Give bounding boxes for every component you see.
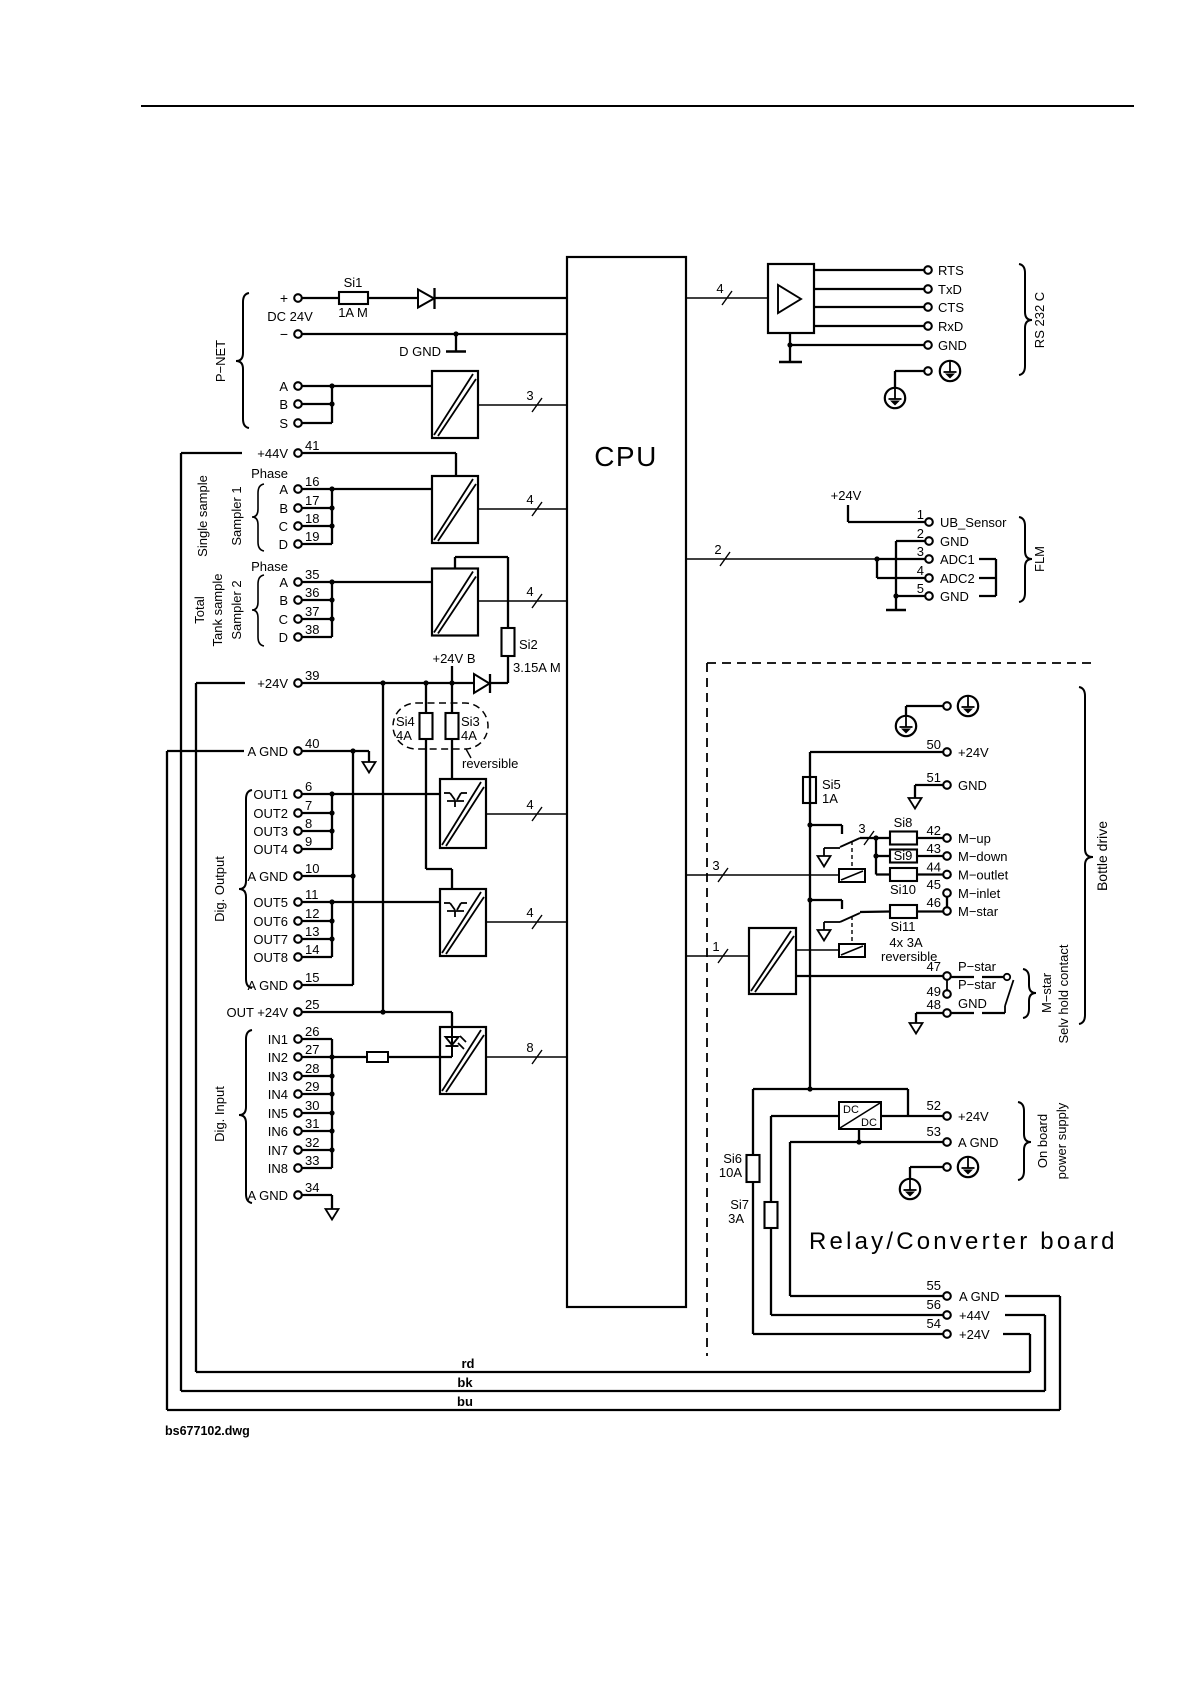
svg-text:+44V: +44V bbox=[959, 1308, 990, 1323]
svg-text:1A M: 1A M bbox=[338, 305, 368, 320]
svg-text:4: 4 bbox=[526, 492, 533, 507]
svg-text:RTS: RTS bbox=[938, 263, 964, 278]
svg-text:A GND: A GND bbox=[248, 978, 288, 993]
svg-text:GND: GND bbox=[958, 996, 987, 1011]
svg-text:DC 24V: DC 24V bbox=[267, 309, 313, 324]
svg-text:bs677102.dwg: bs677102.dwg bbox=[165, 1424, 250, 1438]
svg-text:+24V: +24V bbox=[958, 1109, 989, 1124]
svg-text:4: 4 bbox=[526, 797, 533, 812]
svg-text:14: 14 bbox=[305, 942, 319, 957]
svg-text:OUT1: OUT1 bbox=[253, 787, 288, 802]
svg-text:Si10: Si10 bbox=[890, 882, 916, 897]
svg-text:Si2: Si2 bbox=[519, 637, 538, 652]
svg-text:M−down: M−down bbox=[958, 849, 1008, 864]
svg-text:Sampler 2: Sampler 2 bbox=[229, 580, 244, 639]
svg-text:1: 1 bbox=[712, 939, 719, 954]
svg-text:D: D bbox=[279, 630, 288, 645]
svg-text:56: 56 bbox=[927, 1297, 941, 1312]
svg-text:50: 50 bbox=[927, 737, 941, 752]
svg-text:IN6: IN6 bbox=[268, 1124, 288, 1139]
svg-text:+24V: +24V bbox=[257, 676, 288, 691]
svg-text:9: 9 bbox=[305, 834, 312, 849]
svg-text:Si7: Si7 bbox=[730, 1197, 749, 1212]
svg-text:53: 53 bbox=[927, 1124, 941, 1139]
svg-text:19: 19 bbox=[305, 529, 319, 544]
svg-text:Sampler 1: Sampler 1 bbox=[229, 486, 244, 545]
svg-text:8: 8 bbox=[305, 816, 312, 831]
svg-text:A GND: A GND bbox=[958, 1135, 998, 1150]
svg-text:OUT2: OUT2 bbox=[253, 806, 288, 821]
svg-text:OUT8: OUT8 bbox=[253, 950, 288, 965]
svg-text:A: A bbox=[279, 575, 288, 590]
svg-text:RxD: RxD bbox=[938, 319, 963, 334]
svg-text:Si6: Si6 bbox=[723, 1151, 742, 1166]
svg-text:M−inlet: M−inlet bbox=[958, 886, 1001, 901]
svg-text:rd: rd bbox=[462, 1356, 475, 1371]
svg-text:30: 30 bbox=[305, 1098, 319, 1113]
svg-text:reversible: reversible bbox=[462, 756, 518, 771]
svg-text:D GND: D GND bbox=[399, 344, 441, 359]
svg-text:3: 3 bbox=[526, 388, 533, 403]
svg-text:4A: 4A bbox=[396, 728, 412, 743]
svg-text:Si4: Si4 bbox=[396, 714, 415, 729]
svg-text:P−star: P−star bbox=[958, 977, 997, 992]
svg-text:UB_Sensor: UB_Sensor bbox=[940, 515, 1007, 530]
svg-text:On board: On board bbox=[1035, 1114, 1050, 1168]
svg-text:1: 1 bbox=[917, 507, 924, 522]
svg-text:power supply: power supply bbox=[1054, 1102, 1069, 1179]
svg-text:4x 3A: 4x 3A bbox=[889, 935, 923, 950]
svg-text:IN7: IN7 bbox=[268, 1143, 288, 1158]
svg-text:GND: GND bbox=[958, 778, 987, 793]
svg-text:29: 29 bbox=[305, 1079, 319, 1094]
svg-text:IN8: IN8 bbox=[268, 1161, 288, 1176]
svg-text:5: 5 bbox=[917, 581, 924, 596]
svg-text:ADC1: ADC1 bbox=[940, 552, 975, 567]
svg-text:2: 2 bbox=[917, 526, 924, 541]
svg-text:6: 6 bbox=[305, 779, 312, 794]
svg-text:M−outlet: M−outlet bbox=[958, 868, 1009, 883]
svg-text:32: 32 bbox=[305, 1135, 319, 1150]
svg-text:16: 16 bbox=[305, 474, 319, 489]
svg-text:+24V: +24V bbox=[958, 745, 989, 760]
svg-text:Dig. Output: Dig. Output bbox=[212, 856, 227, 922]
svg-text:B: B bbox=[279, 593, 288, 608]
svg-text:−: − bbox=[280, 326, 288, 342]
svg-text:D: D bbox=[279, 537, 288, 552]
svg-text:B: B bbox=[279, 397, 288, 412]
svg-text:4: 4 bbox=[716, 281, 723, 296]
svg-text:3: 3 bbox=[917, 544, 924, 559]
svg-text:OUT7: OUT7 bbox=[253, 932, 288, 947]
svg-text:12: 12 bbox=[305, 906, 319, 921]
svg-text:S: S bbox=[279, 416, 288, 431]
svg-text:54: 54 bbox=[927, 1316, 941, 1331]
svg-text:47: 47 bbox=[927, 959, 941, 974]
svg-text:M−up: M−up bbox=[958, 831, 991, 846]
svg-text:48: 48 bbox=[927, 997, 941, 1012]
svg-text:37: 37 bbox=[305, 604, 319, 619]
svg-text:Si11: Si11 bbox=[890, 919, 915, 934]
svg-text:Tank sample: Tank sample bbox=[210, 574, 225, 647]
svg-text:FLM: FLM bbox=[1032, 546, 1047, 572]
svg-text:15: 15 bbox=[305, 970, 319, 985]
svg-text:P−NET: P−NET bbox=[213, 340, 228, 382]
svg-text:3.15A M: 3.15A M bbox=[513, 660, 561, 675]
svg-text:Phase: Phase bbox=[251, 559, 288, 574]
svg-text:4: 4 bbox=[526, 584, 533, 599]
svg-text:4: 4 bbox=[526, 905, 533, 920]
svg-text:Dig. Input: Dig. Input bbox=[212, 1086, 227, 1142]
svg-text:35: 35 bbox=[305, 567, 319, 582]
svg-text:4A: 4A bbox=[461, 728, 477, 743]
svg-text:18: 18 bbox=[305, 511, 319, 526]
svg-text:GND: GND bbox=[940, 534, 969, 549]
svg-text:+24V: +24V bbox=[831, 488, 862, 503]
svg-text:3A: 3A bbox=[728, 1211, 744, 1226]
svg-text:Si5: Si5 bbox=[822, 777, 841, 792]
svg-text:P−star: P−star bbox=[958, 959, 997, 974]
svg-text:M−star: M−star bbox=[958, 904, 999, 919]
svg-text:OUT4: OUT4 bbox=[253, 842, 288, 857]
svg-text:DC: DC bbox=[843, 1104, 859, 1116]
svg-text:36: 36 bbox=[305, 585, 319, 600]
svg-text:1A: 1A bbox=[822, 791, 838, 806]
svg-text:Si1: Si1 bbox=[344, 275, 363, 290]
svg-text:7: 7 bbox=[305, 798, 312, 813]
svg-text:25: 25 bbox=[305, 997, 319, 1012]
svg-text:55: 55 bbox=[927, 1278, 941, 1293]
svg-text:38: 38 bbox=[305, 622, 319, 637]
svg-text:Si8: Si8 bbox=[894, 815, 913, 830]
svg-text:OUT +24V: OUT +24V bbox=[226, 1005, 288, 1020]
svg-text:41: 41 bbox=[305, 438, 319, 453]
svg-text:M−star: M−star bbox=[1039, 972, 1054, 1013]
svg-text:31: 31 bbox=[305, 1116, 319, 1131]
svg-text:Si9: Si9 bbox=[894, 848, 913, 863]
svg-text:4: 4 bbox=[917, 563, 924, 578]
svg-text:IN4: IN4 bbox=[268, 1087, 288, 1102]
svg-text:42: 42 bbox=[927, 823, 941, 838]
svg-text:44: 44 bbox=[927, 860, 941, 875]
svg-text:13: 13 bbox=[305, 924, 319, 939]
svg-text:11: 11 bbox=[305, 887, 319, 902]
svg-text:45: 45 bbox=[927, 877, 941, 892]
svg-text:OUT5: OUT5 bbox=[253, 895, 288, 910]
svg-text:Si3: Si3 bbox=[461, 714, 480, 729]
svg-text:Bottle drive: Bottle drive bbox=[1094, 821, 1110, 891]
svg-text:IN2: IN2 bbox=[268, 1050, 288, 1065]
svg-text:Relay/Converter board: Relay/Converter board bbox=[809, 1228, 1118, 1255]
svg-text:3: 3 bbox=[712, 858, 719, 873]
svg-text:C: C bbox=[279, 519, 288, 534]
svg-text:34: 34 bbox=[305, 1180, 319, 1195]
svg-text:Phase: Phase bbox=[251, 466, 288, 481]
svg-text:A GND: A GND bbox=[959, 1289, 999, 1304]
svg-text:39: 39 bbox=[305, 668, 319, 683]
svg-text:bk: bk bbox=[457, 1375, 473, 1390]
svg-text:2: 2 bbox=[714, 542, 721, 557]
svg-text:17: 17 bbox=[305, 493, 319, 508]
svg-text:OUT6: OUT6 bbox=[253, 914, 288, 929]
svg-text:3: 3 bbox=[858, 821, 865, 836]
svg-text:+44V: +44V bbox=[257, 446, 288, 461]
svg-text:CPU: CPU bbox=[594, 441, 658, 472]
svg-text:52: 52 bbox=[927, 1098, 941, 1113]
svg-text:A GND: A GND bbox=[248, 1188, 288, 1203]
svg-text:Single sample: Single sample bbox=[195, 475, 210, 557]
svg-text:TxD: TxD bbox=[938, 282, 962, 297]
svg-text:+: + bbox=[280, 290, 288, 306]
svg-text:+24V: +24V bbox=[959, 1327, 990, 1342]
svg-text:IN3: IN3 bbox=[268, 1069, 288, 1084]
svg-text:46: 46 bbox=[927, 895, 941, 910]
svg-text:27: 27 bbox=[305, 1042, 319, 1057]
svg-text:10A: 10A bbox=[719, 1165, 742, 1180]
svg-text:40: 40 bbox=[305, 736, 319, 751]
svg-text:28: 28 bbox=[305, 1061, 319, 1076]
svg-text:26: 26 bbox=[305, 1024, 319, 1039]
svg-text:OUT3: OUT3 bbox=[253, 824, 288, 839]
svg-text:CTS: CTS bbox=[938, 300, 964, 315]
svg-text:RS 232 C: RS 232 C bbox=[1032, 292, 1047, 348]
svg-text:GND: GND bbox=[938, 338, 967, 353]
svg-text:C: C bbox=[279, 612, 288, 627]
svg-text:8: 8 bbox=[526, 1040, 533, 1055]
svg-text:A: A bbox=[279, 482, 288, 497]
svg-text:Total: Total bbox=[192, 596, 207, 624]
svg-text:43: 43 bbox=[927, 841, 941, 856]
svg-text:Selv hold contact: Selv hold contact bbox=[1056, 944, 1071, 1043]
svg-text:10: 10 bbox=[305, 861, 319, 876]
svg-text:A GND: A GND bbox=[248, 744, 288, 759]
svg-text:IN5: IN5 bbox=[268, 1106, 288, 1121]
svg-text:A: A bbox=[279, 379, 288, 394]
svg-text:+24V B: +24V B bbox=[432, 651, 475, 666]
svg-text:IN1: IN1 bbox=[268, 1032, 288, 1047]
svg-text:B: B bbox=[279, 501, 288, 516]
svg-text:DC: DC bbox=[861, 1117, 877, 1129]
svg-text:A GND: A GND bbox=[248, 869, 288, 884]
svg-text:GND: GND bbox=[940, 589, 969, 604]
svg-text:33: 33 bbox=[305, 1153, 319, 1168]
svg-text:ADC2: ADC2 bbox=[940, 571, 975, 586]
svg-text:51: 51 bbox=[927, 770, 941, 785]
svg-text:bu: bu bbox=[457, 1394, 473, 1409]
